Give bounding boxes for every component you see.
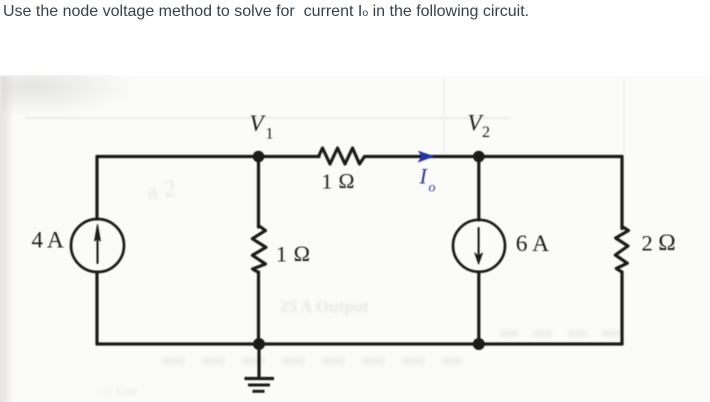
svg-text:Ω: Ω	[658, 230, 675, 256]
svg-text:o: o	[429, 181, 436, 196]
wire left branch upper	[95, 157, 98, 220]
svg-text:1: 1	[276, 242, 287, 267]
wire V2 branch upper	[477, 157, 480, 221]
svg-text:1: 1	[322, 170, 333, 194]
junction dot bottom ground	[253, 338, 265, 350]
resistor R1 1ohm horizontal	[319, 148, 365, 164]
junction dot bottom V2	[473, 338, 485, 350]
wire V2 branch lower	[477, 272, 480, 344]
wire bottom	[97, 342, 622, 345]
current source I1 arrow up	[95, 225, 101, 264]
current source I2 arrow down	[475, 228, 483, 264]
ground stub	[257, 344, 260, 378]
svg-text:6 A: 6 A	[516, 231, 549, 257]
resistor R3 2ohm vertical	[615, 227, 628, 273]
label R1 value 1 ohm	[322, 169, 355, 194]
svg-text:1: 1	[266, 126, 274, 143]
svg-text:Ω: Ω	[294, 241, 310, 266]
node V1 dot	[253, 151, 265, 163]
wire V1 branch lower	[257, 272, 260, 344]
svg-text:I: I	[419, 164, 429, 189]
current source I1 4A circle	[71, 219, 124, 272]
resistor R2 1ohm vertical	[252, 226, 266, 273]
svg-text:V: V	[250, 111, 267, 136]
label source 4 A	[32, 227, 64, 253]
current source I2 6A circle	[453, 220, 505, 272]
wire top-right: R1 to corner	[365, 155, 623, 158]
wire left branch lower	[95, 272, 98, 344]
svg-text:A: A	[47, 227, 64, 253]
label R3 value 2 ohm	[642, 230, 676, 256]
label R2 value 1 ohm	[276, 241, 310, 267]
ground bars	[245, 379, 275, 392]
label Io	[419, 164, 436, 196]
svg-text:2: 2	[482, 124, 490, 141]
wire top-left: corner to R1	[97, 155, 319, 158]
svg-text:Ω: Ω	[339, 169, 355, 193]
wire right branch upper	[620, 157, 623, 229]
svg-text:4: 4	[32, 227, 44, 252]
wire right branch lower	[620, 272, 623, 344]
node V2 dot	[473, 151, 485, 163]
wire V1 branch upper	[257, 157, 260, 228]
current arrow Io blue	[418, 151, 435, 163]
svg-text:2: 2	[642, 231, 653, 256]
